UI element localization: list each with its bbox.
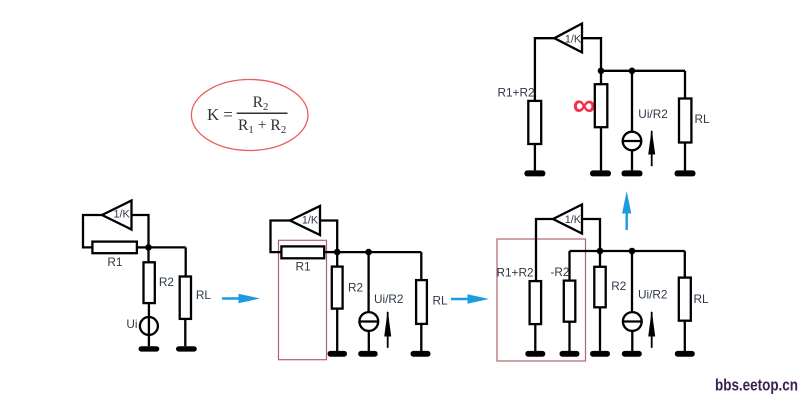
ground C2 (under -R2) [560,351,580,357]
svg-text:R1: R1 [107,255,122,269]
op-amp A "1/K" [102,201,132,230]
svg-text:R1: R1 [295,259,310,273]
label -R2 (C) [550,265,569,279]
resistor RL (C) [679,278,691,321]
svg-text:R2: R2 [159,275,174,289]
svg-text:1/K: 1/K [302,215,319,227]
node C1 junction dot [597,248,604,255]
svg-text:Ui/R2: Ui/R2 [638,287,668,301]
svg-text:K =: K = [207,105,233,124]
wire R1+R2 (C) to ground [534,324,536,351]
node A1 junction dot [145,244,152,251]
svg-text:∞: ∞ [573,87,596,123]
label RL (A) [196,288,212,302]
formula ellipse (red) [191,80,308,151]
svg-text:RL: RL [693,292,709,306]
ground A1 (under Ui) [139,346,160,351]
svg-text:RL: RL [432,294,448,308]
current source Ui/R2 (D) [623,132,642,151]
wire Rinf (D) to ground [600,127,602,170]
label Ui/R2 (C) [638,287,668,301]
svg-text:bbs.eetop.cn: bbs.eetop.cn [715,375,798,394]
wire bus C [570,250,685,252]
wire R2 (C) to ground [599,307,601,351]
node B2 junction dot [365,249,372,256]
label R2 (B) [348,281,363,295]
ground D2g (under Rinf) [590,170,611,176]
node B1 junction dot [334,249,341,256]
svg-text:RL: RL [694,112,710,126]
resistor RL (D) [679,99,691,143]
wire feedback A (tip to R1) [83,215,102,247]
svg-text:1/K: 1/K [565,214,582,226]
resistor RL (A) [180,277,191,319]
wire source branch B [367,252,369,312]
wire RL branch A [185,247,187,276]
wire bus D [601,70,685,72]
wire RL (A) to ground [184,319,186,346]
wire -R2 branch C [568,251,570,281]
label RL (B) [432,294,448,308]
wire source D to ground [631,150,633,170]
ground B3 (under RL) [411,351,431,357]
label R1 (A) [107,255,122,269]
label RL (D) [694,112,710,126]
wire RL branch B [420,252,422,280]
svg-text:Ui: Ui [126,317,137,331]
red highlight box B (around R1 branch) [279,240,327,359]
svg-text:R2: R2 [348,281,363,295]
ground C5 (under RL) [675,351,695,357]
wire R1 (B) right terminal to node [324,251,337,253]
svg-text:1/K: 1/K [565,33,582,45]
current source Ui/R2 (B, circle with horizontal bar) [359,312,378,331]
resistor R1 (B, horizontal) [281,246,324,258]
wire source branch C [631,251,633,312]
infinity resistor value (red) [573,87,596,123]
op-amp D "1/K" [554,24,582,53]
label R1+R2 (C) [496,266,533,280]
blue arrow B to C [451,294,489,304]
blue arrow A to B [222,294,260,304]
svg-text:1/K: 1/K [113,209,130,221]
wire RL (B) to ground [420,324,422,351]
svg-text:R2: R2 [611,279,626,293]
wire source branch D [631,71,633,132]
resistor RL (B) [416,280,427,324]
label R1 (B) [295,259,310,273]
label R1+R2 (D) [497,85,534,99]
ground B1 (under R2) [328,351,348,357]
red highlight box C (around R1+R2 and -R2 branches) [497,239,586,361]
label RL (C) [693,292,709,306]
ground B2 (under source) [358,351,378,357]
blue arrow C to D (up) [622,191,631,230]
wire source C to ground [631,331,633,351]
wire -R2 (C) to ground [568,322,570,351]
ground D3 (under source) [622,170,643,176]
resistor R1+R2 (C) [530,281,542,324]
svg-text:R1+R2: R1+R2 [497,85,534,99]
label Ui [126,317,137,331]
ground D1 (under R1+R2) [524,170,545,176]
wire op-amp A output down [132,215,149,262]
wire RL branch D [684,71,686,99]
node D1 junction dot [598,68,605,75]
wire source B to ground [368,331,370,351]
ground A2 (under RL) [176,346,197,351]
resistor Rinf (D, middle) [595,84,608,127]
wire bus A to RL [149,246,186,248]
node C2 junction dot [629,248,636,255]
wire R2 to Ui source [148,303,150,317]
wire op-amp B output down [320,221,337,267]
ground D4 (under RL) [675,170,696,176]
watermark bbs.eetop.cn [715,375,798,394]
op-amp C "1/K" [553,205,582,234]
wire RL (C) to ground [684,321,686,351]
resistor R1+R2 (D) [528,101,541,144]
voltage source Ui (circle with vertical line) [140,317,158,346]
current direction arrow (D, black up) [648,129,655,166]
ground C4 (under source) [622,351,642,357]
svg-text:Ui/R2: Ui/R2 [638,107,668,121]
wire feedback D (tip to R1+R2) [535,38,555,101]
svg-text:-R2: -R2 [550,265,569,279]
current direction arrow (B, black up) [384,310,391,348]
resistor R2 (B) [332,267,343,309]
wire RL (D) to ground [684,143,686,171]
resistor -R2 (C) [564,281,576,322]
label Ui/R2 (D) [638,107,668,121]
ground C3 (under R2) [590,351,610,357]
svg-text:RL: RL [196,288,212,302]
wire feedback C (tip to R1+R2) [536,219,553,281]
wire RL branch C [684,251,686,278]
resistor R2 (C) [594,267,605,308]
svg-text:R1 + R2: R1 + R2 [238,117,286,136]
label R2 (C) [611,279,626,293]
formula K = R2/(R1+R2) [207,94,288,136]
ground C1 (under R1+R2) [525,351,545,357]
wire feedback B [271,221,291,253]
current source Ui/R2 (C) [623,312,642,331]
label Ui/R2 (B) [374,292,404,306]
wire op-amp D output down [582,38,601,84]
resistor R1 (A, horizontal) [92,242,136,254]
op-amp B "1/K" [290,206,320,235]
wire R1 (A) right terminal to node [137,246,149,248]
resistor R2 (A, vertical) [144,262,155,303]
svg-text:Ui/R2: Ui/R2 [374,292,404,306]
wire op-amp C output down [582,219,600,267]
label R2 (A) [159,275,174,289]
node D2 junction dot [629,68,636,75]
wire R1+R2 (D) to ground [534,144,536,170]
wire R2 (B) to ground [336,309,338,351]
current direction arrow (C, black up) [648,310,655,348]
wire bus B [337,251,421,253]
svg-text:R1+R2: R1+R2 [496,266,533,280]
